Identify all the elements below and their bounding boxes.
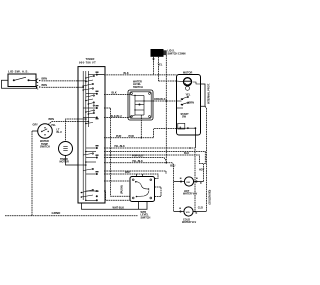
svg-text:HOT: HOT <box>199 169 205 172</box>
svg-text:YEL: YEL <box>51 124 56 127</box>
svg-text:PUR: PUR <box>116 135 121 138</box>
svg-text:GRND: GRND <box>52 211 62 215</box>
svg-text:BLK: BLK <box>124 72 129 75</box>
svg-text:(PUSH): (PUSH) <box>121 185 124 194</box>
svg-text:WHT-BLK: WHT-BLK <box>113 206 125 209</box>
svg-text:YEL-BLK: YEL-BLK <box>132 160 143 163</box>
svg-text:BRN: BRN <box>189 101 195 104</box>
svg-text:GRY: GRY <box>33 123 39 126</box>
svg-text:LID SW. A.S.: LID SW. A.S. <box>8 69 29 73</box>
svg-text:SWITCH: SWITCH <box>40 146 50 149</box>
svg-text:CLD: CLD <box>198 206 203 209</box>
svg-text:BRN: BRN <box>42 84 48 87</box>
svg-text:BRN: BRN <box>42 77 48 80</box>
svg-text:MOTOR: MOTOR <box>183 71 192 74</box>
svg-text:YEL-BLK: YEL-BLK <box>114 145 125 148</box>
svg-text:BLK: BLK <box>184 152 189 155</box>
svg-text:BLK-BLU: BLK-BLU <box>111 115 122 118</box>
svg-text:YEL: YEL <box>186 93 191 96</box>
svg-text:WHT: WHT <box>125 171 131 174</box>
svg-text:SWITCH CONN: SWITCH CONN <box>168 53 186 56</box>
svg-text:900-786 VT: 900-786 VT <box>79 61 96 65</box>
svg-text:VIO: VIO <box>186 182 190 184</box>
svg-text:VIO: VIO <box>186 212 190 214</box>
svg-text:SWITCH: SWITCH <box>133 86 143 89</box>
svg-text:PUR-BLK: PUR-BLK <box>132 155 143 158</box>
svg-text:SW: SW <box>182 116 187 119</box>
svg-text:MOTOR: MOTOR <box>60 161 69 164</box>
svg-text:(SOLENOID): (SOLENOID) <box>209 190 212 205</box>
svg-text:BLU: BLU <box>170 164 175 167</box>
svg-text:WATER VLV: WATER VLV <box>183 193 198 196</box>
svg-text:BRN: BRN <box>49 118 55 121</box>
svg-text:TIMER: TIMER <box>86 57 95 61</box>
svg-text:SWITCH: SWITCH <box>141 216 151 219</box>
svg-text:ORN-BLK: ORN-BLK <box>154 98 166 101</box>
svg-text:BLU: BLU <box>57 131 62 134</box>
svg-text:INTERNAL PROT.: INTERNAL PROT. <box>208 83 211 104</box>
svg-text:WATER VLV: WATER VLV <box>182 221 197 224</box>
svg-text:BLK: BLK <box>112 92 117 95</box>
